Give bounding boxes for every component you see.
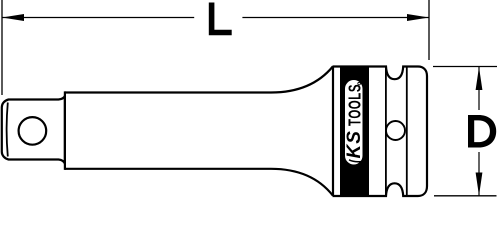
D arrowhead up xyxy=(476,67,483,90)
svg-text:KS: KS xyxy=(344,130,365,158)
KS Tools band xyxy=(340,67,369,196)
svg-text:TOOLS: TOOLS xyxy=(345,84,365,126)
pin hole xyxy=(386,121,405,140)
square drive outline xyxy=(2,96,65,164)
D dimension line lower segment xyxy=(478,152,480,196)
KS swoosh xyxy=(349,160,361,162)
D extension line top xyxy=(433,66,497,68)
label L xyxy=(209,3,232,36)
shaft top edge xyxy=(65,91,271,93)
shoulder line xyxy=(64,91,66,169)
groove left wall line xyxy=(385,67,387,197)
registered mark xyxy=(358,82,361,85)
D extension line bottom xyxy=(434,195,497,197)
transition curve top xyxy=(271,67,333,93)
KS Tools capsule xyxy=(345,80,363,165)
dimension line L right segment xyxy=(242,17,429,19)
dimension line L left segment xyxy=(2,17,194,19)
shaft bottom edge xyxy=(65,168,271,170)
arrowhead right xyxy=(407,14,429,21)
extension line right (L dimension) xyxy=(428,0,430,60)
head ridge line xyxy=(332,67,334,197)
transition curve bottom xyxy=(271,169,333,196)
arrowhead left xyxy=(2,14,24,21)
label D xyxy=(468,115,496,148)
groove right wall line xyxy=(406,67,408,197)
D dimension line upper segment xyxy=(478,67,480,110)
detent ball hole xyxy=(19,117,47,145)
square drive chamfer contour xyxy=(7,103,8,157)
D arrowhead down xyxy=(476,173,483,196)
extension line left (L dimension) xyxy=(1,0,3,95)
head top edge with groove xyxy=(333,67,428,197)
